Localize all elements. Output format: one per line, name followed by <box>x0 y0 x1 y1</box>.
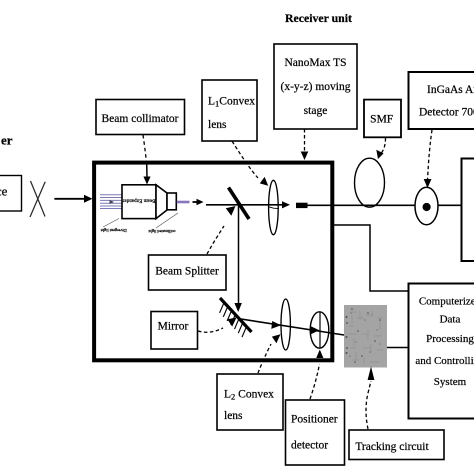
arrow tip NanoMax <box>301 152 309 161</box>
mirror hatching <box>220 302 247 337</box>
svg-text:NanoMax TS: NanoMax TS <box>284 57 346 69</box>
Tracking circuit label box <box>349 430 444 460</box>
arrow tip onto mirror <box>234 303 242 312</box>
dashed leader from L2 label <box>258 344 271 373</box>
Positioner detector label box <box>286 400 345 465</box>
laser source box (cut off at left edge) <box>0 176 22 212</box>
arrow inside positioner <box>311 326 320 334</box>
leader to label: collimated light <box>156 213 178 228</box>
svg-text:Beam Splitter: Beam Splitter <box>155 266 219 278</box>
arrow tip InGaAs <box>424 179 432 188</box>
tracking circuit gray module <box>344 305 387 368</box>
dashed leader from NanoMax <box>304 129 306 151</box>
svg-text:stage: stage <box>304 105 328 117</box>
main beam line to L1 lens <box>206 204 284 206</box>
dashed leader from SMF <box>381 138 386 154</box>
positioner detector (ellipse with vertical line) <box>310 312 329 348</box>
svg-text:Beam collimator: Beam collimator <box>102 113 179 125</box>
dashed leader from Beam Splitter label <box>207 226 224 254</box>
dashed leader from L1 label <box>232 141 258 178</box>
svg-text:Processing: Processing <box>426 333 474 345</box>
svg-text:lens: lens <box>208 119 227 131</box>
svg-text:ce: ce <box>0 184 8 199</box>
svg-text:Tracking circuit: Tracking circuit <box>355 441 429 453</box>
SMF oval <box>355 158 385 207</box>
leader to label: divergent light <box>103 219 119 228</box>
arrow on reflected beam before L2 <box>271 321 281 329</box>
arrow tip positioner <box>316 350 323 359</box>
vertical beam down from splitter <box>238 205 240 303</box>
svg-text:er: er <box>1 133 13 148</box>
svg-text:Detector 700-1: Detector 700-1 <box>419 107 474 119</box>
Beam Splitter label box <box>149 255 227 290</box>
InGaAs detector label box <box>409 72 474 129</box>
detector circle with dot <box>415 187 438 225</box>
moving stage (thick dash) <box>296 203 308 208</box>
divergent fiber lines <box>100 195 122 209</box>
svg-text:Divergent light: Divergent light <box>100 228 127 233</box>
dashed leader from Mirror label <box>198 328 223 332</box>
arrow into receiver unit <box>54 195 92 203</box>
beam expander device <box>100 185 190 234</box>
arrow after expander <box>193 199 204 206</box>
svg-text:InGaAs Arra: InGaAs Arra <box>427 84 474 96</box>
beam splitter plate <box>229 188 250 220</box>
svg-text:System: System <box>434 376 467 388</box>
right cut-off box <box>462 159 474 262</box>
arrow tip L1 <box>260 177 268 186</box>
beam collimator label box <box>96 100 185 135</box>
svg-text:and Controlling: and Controlling <box>415 355 474 367</box>
svg-text:Beam Expander: Beam Expander <box>122 198 155 203</box>
X mark <box>30 181 45 217</box>
svg-text:Mirror: Mirror <box>158 321 189 333</box>
beam line to right box <box>308 204 462 206</box>
svg-text:Receiver unit: Receiver unit <box>285 11 352 25</box>
taper <box>156 185 167 219</box>
L1 convex lens label box <box>202 80 257 141</box>
tick on L1 <box>269 207 279 209</box>
arrow tip Beam Splitter <box>226 206 236 216</box>
tiny arrow in fiber bundle <box>110 200 115 204</box>
nozzle <box>167 193 176 210</box>
receiver unit enclosure box <box>94 163 332 361</box>
expander body <box>122 185 156 219</box>
svg-text:SMF: SMF <box>370 114 393 126</box>
NanoMax label box <box>274 44 357 129</box>
mirror plate <box>220 298 252 332</box>
arrow tip L2 <box>272 334 281 343</box>
connector: receiver box to computer box <box>333 225 409 291</box>
arrow tip Mirror <box>227 318 236 327</box>
reflected beam to gray box <box>241 319 344 335</box>
svg-text:detector: detector <box>291 440 328 452</box>
svg-text:collimated light: collimated light <box>148 229 176 234</box>
svg-text:Positioner: Positioner <box>291 414 338 426</box>
dashed leader from InGaAs <box>428 130 433 180</box>
lens L1 (ellipse) <box>269 180 279 234</box>
dashed leader from beam collimator label <box>143 135 147 163</box>
connector: gray module to computer box <box>387 347 409 349</box>
arrow tip into gray module <box>368 367 375 381</box>
lens L2 (ellipse) <box>281 299 290 350</box>
computerized system box <box>409 284 474 419</box>
Mirror label box <box>151 312 198 350</box>
svg-text:Data: Data <box>440 314 461 326</box>
L2 convex lens label box <box>217 374 283 430</box>
svg-text:lens: lens <box>224 410 243 422</box>
arrow tip SMF <box>376 150 383 159</box>
arrow onto beam expander <box>143 164 150 185</box>
dashed leader from tracking circuit label <box>366 381 371 429</box>
svg-text:Computerized: Computerized <box>419 296 474 308</box>
SMF label box <box>364 100 401 138</box>
arrow before stage dash <box>282 201 290 208</box>
dashed leader from positioner label <box>310 364 320 399</box>
collimated output segment <box>177 201 190 204</box>
svg-text:(x-y-z) moving: (x-y-z) moving <box>281 81 351 93</box>
